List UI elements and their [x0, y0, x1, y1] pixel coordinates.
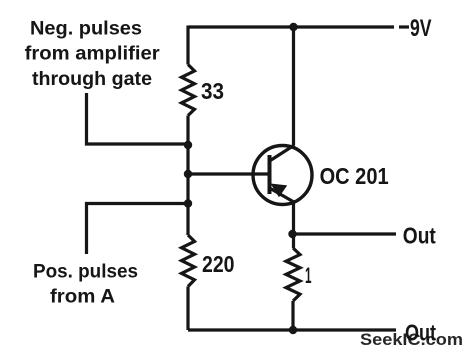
transistor OC 201 [253, 145, 389, 205]
wire positive-pulse input lead [87, 204, 189, 255]
svg-text:from A: from A [50, 287, 115, 308]
wire left vertical branch upper segment [186, 26, 189, 65]
input label Pos. pulses from A [33, 262, 138, 308]
wire collector lead to rail [292, 27, 295, 145]
svg-text:9V: 9V [410, 15, 432, 42]
svg-text:33: 33 [201, 78, 224, 104]
wire emitter lead upper segment [292, 202, 295, 248]
node junction of collector and rail [289, 23, 297, 31]
wire emitter lead lower segment [291, 301, 294, 330]
svg-text:Out: Out [403, 223, 436, 249]
label -9V [399, 15, 432, 42]
svg-text:1: 1 [305, 263, 312, 288]
node junction of resistor 1 and bottom rail [289, 326, 297, 334]
svg-text:Neg. pulses: Neg. pulses [30, 19, 142, 40]
resistor 33 [182, 65, 225, 116]
svg-text:through gate: through gate [32, 69, 152, 90]
svg-text:SeekIC.com: SeekIC.com [360, 330, 463, 349]
wire negative-pulse input lead [87, 93, 189, 144]
wire bottom rail [188, 328, 396, 331]
wire left vertical branch lower segment [186, 287, 189, 331]
wire left vertical branch middle segment [186, 116, 189, 236]
node junction of emitter and output [288, 230, 296, 238]
wire top supply rail [188, 25, 394, 28]
svg-text:from amplifier: from amplifier [25, 44, 161, 65]
svg-text:OC 201: OC 201 [320, 163, 389, 189]
svg-text:220: 220 [202, 251, 235, 277]
resistor 220 [182, 235, 235, 287]
wire upper output lead [293, 232, 396, 235]
node junction of base tap [184, 170, 192, 178]
input label Neg. pulses from amplifier through gate [25, 19, 161, 90]
node junction of neg input and divider [184, 141, 192, 149]
wire base lead [188, 172, 269, 175]
svg-text:Pos. pulses: Pos. pulses [33, 262, 138, 283]
node junction of pos input and divider [184, 199, 192, 207]
resistor 1 [286, 248, 312, 301]
